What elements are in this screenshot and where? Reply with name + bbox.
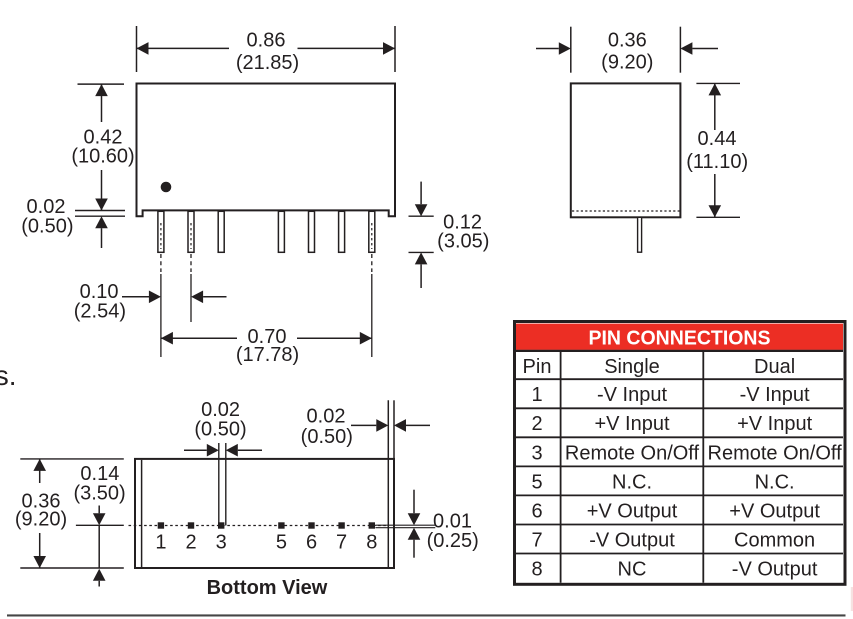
table row 1 bbox=[531, 384, 810, 406]
svg-text:8: 8 bbox=[366, 531, 377, 553]
bottom view: pin 1 pad bbox=[158, 522, 164, 528]
svg-text:(11.10): (11.10) bbox=[686, 151, 748, 173]
svg-text:(21.85): (21.85) bbox=[236, 52, 299, 74]
side view: internal base dotted line bbox=[572, 210, 680, 212]
svg-text:-V Output: -V Output bbox=[732, 558, 818, 580]
cut-off paragraph text at left edge bbox=[0, 360, 16, 391]
table row 8 bbox=[531, 558, 817, 580]
svg-text:Remote On/Off: Remote On/Off bbox=[708, 442, 843, 464]
svg-text:7: 7 bbox=[336, 531, 347, 553]
svg-text:3: 3 bbox=[531, 442, 542, 464]
front view: pin 1 indicator dot bbox=[161, 182, 172, 193]
bottom view: pin number 7 bbox=[336, 531, 347, 553]
bottom view: pin 6 pad bbox=[308, 522, 314, 528]
dimension 0.02 (0.50) wall thickness callout bbox=[301, 406, 430, 448]
front view: package body outline bbox=[137, 84, 396, 217]
svg-text:Remote On/Off: Remote On/Off bbox=[565, 442, 700, 464]
pin centre extension lines below pins 1, 2 and 8 bbox=[161, 254, 372, 357]
front view: pin 5 lead bbox=[278, 211, 284, 252]
bottom view: pin number 6 bbox=[306, 531, 317, 553]
bottom view: pin row dotted centre line bbox=[129, 525, 388, 527]
pin connections table: grid lines bbox=[516, 351, 843, 583]
page footer rule bbox=[7, 614, 846, 616]
svg-text:Single: Single bbox=[604, 356, 660, 378]
bottom view: pin number 2 bbox=[185, 531, 196, 553]
svg-text:6: 6 bbox=[306, 531, 317, 553]
svg-text:(2.54): (2.54) bbox=[74, 300, 126, 322]
svg-text:0.36: 0.36 bbox=[608, 30, 647, 52]
bottom view: pin 2 pad bbox=[188, 522, 194, 528]
pin connections table: outer border bbox=[515, 322, 846, 585]
side view: pin lead bbox=[638, 217, 642, 252]
table row 2 bbox=[531, 413, 812, 435]
bottom view: right wall inner line bbox=[388, 400, 394, 567]
svg-text:+V Output: +V Output bbox=[729, 500, 820, 522]
dimension 0.12 (3.05) pin length, front view bbox=[409, 182, 490, 288]
bottom view: pin 8 pad bbox=[369, 522, 375, 528]
svg-text:(0.25): (0.25) bbox=[427, 530, 479, 552]
table row 7 bbox=[531, 529, 815, 551]
svg-text:1: 1 bbox=[531, 384, 542, 406]
svg-text:+V Input: +V Input bbox=[594, 413, 670, 435]
bottom view: pin number 8 bbox=[366, 531, 377, 553]
pin connections table: red header band bbox=[516, 324, 843, 351]
svg-text:0.86: 0.86 bbox=[247, 30, 286, 52]
svg-text:Pin: Pin bbox=[523, 356, 552, 378]
svg-text:s.: s. bbox=[0, 360, 16, 391]
svg-text:-V Input: -V Input bbox=[740, 384, 810, 406]
svg-text:(0.50): (0.50) bbox=[21, 215, 73, 237]
svg-text:Common: Common bbox=[734, 529, 815, 551]
dimension 0.01 (0.25) pin thickness, bottom view bbox=[375, 490, 478, 558]
bottom view: pin 7 pad bbox=[338, 522, 344, 528]
svg-text:+V Input: +V Input bbox=[737, 413, 813, 435]
dimension 0.02 (0.50) pin 3 width callout bbox=[184, 399, 262, 525]
svg-text:2: 2 bbox=[531, 413, 542, 435]
pin connections table: title bbox=[589, 328, 771, 350]
svg-text:(10.60): (10.60) bbox=[71, 146, 134, 168]
front view: pin 3 lead bbox=[218, 211, 224, 252]
svg-text:N.C.: N.C. bbox=[755, 471, 795, 493]
table row 3 bbox=[531, 442, 842, 464]
svg-text:NC: NC bbox=[618, 558, 647, 580]
svg-text:1: 1 bbox=[155, 531, 166, 553]
table row Pin bbox=[523, 356, 796, 378]
dimension 0.36 (9.20) body depth, bottom view bbox=[15, 459, 124, 568]
svg-text:-V Input: -V Input bbox=[597, 384, 667, 406]
svg-text:+V Output: +V Output bbox=[587, 500, 678, 522]
svg-text:6: 6 bbox=[531, 500, 542, 522]
svg-text:5: 5 bbox=[531, 471, 542, 493]
svg-text:(0.50): (0.50) bbox=[194, 419, 246, 441]
dimension 0.36 (9.20) body depth, side view bbox=[536, 27, 718, 74]
svg-text:5: 5 bbox=[276, 531, 287, 553]
bottom view: package body outline bbox=[135, 459, 394, 568]
dimension 0.42 (10.60) body height, front view bbox=[71, 84, 134, 210]
svg-text:(9.20): (9.20) bbox=[601, 52, 653, 74]
svg-text:2: 2 bbox=[185, 531, 196, 553]
svg-text:7: 7 bbox=[531, 529, 542, 551]
bottom view: pin number 5 bbox=[276, 531, 287, 553]
svg-text:(3.50): (3.50) bbox=[73, 483, 125, 505]
bottom view: pin 5 pad bbox=[278, 522, 284, 528]
side view: package body outline bbox=[571, 83, 681, 217]
front view: pin 6 lead bbox=[309, 211, 315, 252]
svg-text:Dual: Dual bbox=[754, 356, 795, 378]
bottom view caption bbox=[207, 577, 328, 599]
dimension 0.10 (2.54) pin pitch bbox=[74, 281, 227, 322]
dimension 0.86 (21.85) body width, front view bbox=[137, 26, 396, 74]
table row 6 bbox=[531, 500, 820, 522]
dimension 0.02 (0.50) standoff, front view bbox=[21, 196, 125, 248]
table row 5 bbox=[531, 471, 794, 493]
svg-text:0.02: 0.02 bbox=[307, 406, 346, 428]
svg-text:0.44: 0.44 bbox=[698, 128, 737, 150]
svg-text:(17.78): (17.78) bbox=[236, 344, 299, 366]
svg-text:N.C.: N.C. bbox=[612, 471, 652, 493]
front view: pin 1 lead bbox=[158, 211, 164, 252]
svg-text:8: 8 bbox=[531, 558, 542, 580]
svg-text:-V Output: -V Output bbox=[589, 529, 675, 551]
front view: pin 2 lead bbox=[188, 211, 194, 252]
bottom view: left wall inner line bbox=[141, 460, 143, 567]
dimension 0.14 (3.50) pin row offset, bottom view bbox=[73, 463, 125, 586]
dimension 0.70 (17.78) pin row span bbox=[161, 326, 372, 366]
svg-text:3: 3 bbox=[216, 531, 227, 553]
svg-text:(0.50): (0.50) bbox=[301, 426, 353, 448]
bottom view: pin number 3 bbox=[216, 531, 227, 553]
front view: pin 8 lead bbox=[369, 211, 375, 252]
svg-text:PIN CONNECTIONS: PIN CONNECTIONS bbox=[589, 328, 771, 350]
dimension 0.44 (11.10) body height, side view bbox=[686, 83, 748, 217]
bottom view: pin 3 pad bbox=[218, 522, 224, 528]
svg-text:(3.05): (3.05) bbox=[437, 230, 489, 252]
bottom view: pin number 1 bbox=[155, 531, 166, 553]
front view: pin 7 lead bbox=[339, 211, 345, 252]
svg-text:0.01: 0.01 bbox=[433, 510, 472, 532]
svg-text:(9.20): (9.20) bbox=[15, 509, 67, 531]
faint red page-edge artifact bbox=[851, 587, 853, 611]
svg-text:Bottom View: Bottom View bbox=[207, 577, 328, 599]
